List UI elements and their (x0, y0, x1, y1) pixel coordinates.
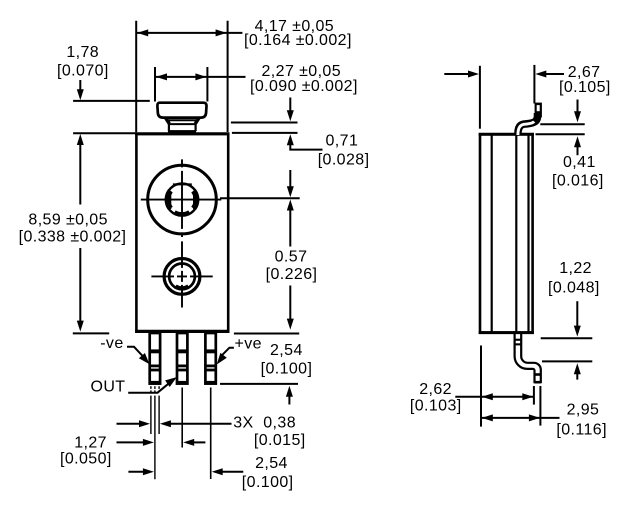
dim 0.57 down arrow (top) (289, 170, 291, 188)
large port vertical centerline (181, 159, 183, 237)
svg-text:[0.048]: [0.048] (548, 280, 600, 297)
dim 1,22 upper reference line (541, 337, 593, 339)
dim 8,59 dimension line lower segment (79, 248, 81, 326)
dim 2,95 dimension line with outward arrows (482, 417, 541, 419)
dim 2,67 right arrow (535, 71, 546, 78)
svg-text:[0.100]: [0.100] (242, 474, 294, 491)
small port inner circle (169, 264, 195, 290)
dim 0,41 lower reference line (536, 133, 585, 135)
dim 1,22 up arrow (574, 363, 581, 374)
dim 2,27 extension line left (154, 67, 156, 102)
svg-text:2,54: 2,54 (255, 455, 288, 472)
dim 0,71 down arrow (289, 98, 291, 113)
dim 3X 0,38 row: left arrow (117, 423, 142, 425)
sensor die right chord line (193, 191, 195, 209)
svg-text:-ve: -ve (100, 335, 123, 352)
dim 0,71 up arrow with elbow leader (287, 134, 294, 145)
body top extension line left (73, 132, 137, 134)
label +ve leader (221, 348, 234, 357)
svg-text:[0.028]: [0.028] (318, 151, 370, 168)
lead 1 center projection (dashed) (154, 386, 156, 479)
dim 1,78 down arrow (79, 80, 81, 93)
side view bottom lead (515, 334, 541, 383)
lead 1 left edge projection (dashed) (150, 386, 152, 434)
dim 2,62 leader from text (455, 396, 481, 398)
nozzle neck line (169, 123, 196, 125)
svg-text:1,78: 1,78 (66, 44, 99, 61)
lead right edge extension line (539, 386, 541, 426)
small port inner bottom thick arc (176, 286, 189, 288)
label -ve leader (127, 347, 145, 358)
dim 2,27 dimension line (155, 76, 246, 78)
dim 2,54 (bottom) right arrow (212, 468, 223, 475)
svg-text:[0.103]: [0.103] (410, 397, 462, 414)
sensor die left chord line (169, 191, 171, 209)
nozzle shoulder right slant (195, 118, 199, 124)
svg-text:[0.105]: [0.105] (559, 79, 611, 96)
svg-text:2,95: 2,95 (567, 402, 600, 419)
svg-text:+ve: +ve (235, 336, 262, 353)
svg-text:[0.090 ±0.002]: [0.090 ±0.002] (250, 78, 358, 95)
dim 2,27 right arrowhead (195, 73, 206, 80)
lead 3 center projection (dashed) (210, 388, 212, 480)
dim 0.57 dimension line lower segment (289, 286, 291, 321)
body top extension line right (232, 132, 298, 134)
nozzle neck right side (195, 121, 197, 131)
dim 4,17 right arrowhead (216, 29, 227, 36)
lead 1 right edge projection (dashed) (158, 386, 160, 434)
dim 8,59 up arrow (77, 134, 84, 145)
sensor die top chord line (173, 183, 192, 185)
dim 2,27 left arrowhead (156, 73, 167, 80)
dim 4,17 extension line right (227, 21, 229, 132)
dim 1,22 lower reference line (542, 360, 592, 362)
dim 1,27 right arrow (183, 439, 194, 446)
dim 8,59 dimension line upper segment (79, 140, 81, 205)
svg-text:[0.338 ±0.002]: [0.338 ±0.002] (19, 229, 127, 246)
dim 0,41 up arrow (574, 136, 581, 147)
small port outer circle (164, 259, 200, 295)
dim 2,67 left arrow (444, 73, 470, 75)
svg-text:OUT: OUT (91, 379, 126, 396)
nozzle neck left side (168, 121, 170, 131)
small port horizontal centerline (151, 275, 212, 277)
svg-text:1,27: 1,27 (74, 435, 107, 452)
lead tick band 1 (515, 339, 522, 341)
dim 0,41 upper reference line (540, 123, 584, 125)
lead 2 bands (177, 349, 187, 384)
svg-text:0.57: 0.57 (275, 248, 308, 265)
dim 0.57 dimension line upper segment (289, 209, 291, 247)
sensor die bottom thick arc (175, 212, 190, 214)
large port outer circle (148, 165, 217, 234)
lead 2 center projection (dashed) (181, 388, 183, 448)
dim 2,62 dimension line with outward arrows (482, 396, 534, 398)
nozzle top extension line (73, 100, 150, 102)
lead 2 (OUT) outline (177, 333, 187, 384)
large port horizontal centerline (141, 199, 222, 201)
lead upper leg outer edge (515, 334, 535, 383)
svg-text:3X 0,38: 3X 0,38 (233, 414, 296, 431)
svg-text:[0.050]: [0.050] (60, 450, 112, 467)
large port centerline extension right (220, 197, 300, 199)
side body internal line 1 (491, 135, 493, 332)
svg-text:[0.015]: [0.015] (254, 432, 306, 449)
lead down-leg tick band (535, 373, 541, 376)
dim 2,62 extension line left (480, 346, 482, 427)
dim 4,17 extension line left (135, 21, 137, 132)
body bottom extension line left (73, 332, 109, 334)
dim 3X 0,38 row: right arrow and leader to text (160, 420, 171, 427)
side view body (479, 134, 534, 332)
top tab head (535, 103, 542, 118)
svg-text:[0.100]: [0.100] (261, 360, 313, 377)
lead 1 bands (150, 349, 160, 384)
nozzle cap on top of body (157, 103, 206, 132)
small port vertical centerline (181, 241, 183, 307)
sensor die left thick arc (167, 191, 170, 209)
nozzle shoulder line (167, 119, 197, 121)
lead tip band (535, 381, 541, 384)
dim 2,54 (bottom) left arrow (128, 471, 145, 473)
dim 2,54 (right) up arrow (286, 386, 293, 397)
nozzle dark base band (168, 130, 196, 135)
svg-text:2,54: 2,54 (270, 342, 303, 359)
large port inner circle (sensor aperture) (166, 184, 198, 216)
lead 1 (-ve) outline (150, 333, 160, 384)
dim 8,59 down arrow (77, 321, 84, 332)
svg-text:2,62: 2,62 (419, 381, 452, 398)
body bottom extension line right (234, 333, 299, 335)
side body internal line 2 (515, 135, 517, 332)
lead tip extension line right (220, 383, 298, 385)
dim 0.57 down arrow (bottom) (287, 319, 294, 330)
dim 2,67 extension line left (479, 66, 481, 129)
top bent tab band white core (518, 122, 534, 135)
sensor die right thick arc (194, 191, 197, 209)
svg-text:[0.164 ±0.002]: [0.164 ±0.002] (244, 32, 352, 49)
dim 4,17 dimension line (136, 32, 242, 34)
dim 0,41 down arrow (577, 100, 579, 114)
svg-text:0,41: 0,41 (563, 154, 596, 171)
dim 2,67 extension line right (533, 65, 535, 104)
nozzle shoulder extension line right (231, 122, 298, 124)
dim 0.57 up arrow (287, 200, 294, 211)
lead left edge extension line (533, 386, 535, 405)
lead tick band 2 (515, 343, 522, 345)
dim 1,27 left arrow (117, 441, 146, 443)
svg-text:0,71: 0,71 (326, 133, 359, 150)
package body (front view) (135, 134, 229, 332)
svg-text:[0.070]: [0.070] (57, 63, 109, 80)
label OUT leader (128, 384, 168, 393)
top bent tab band (thick black) (518, 113, 538, 134)
svg-text:8,59 ±0,05: 8,59 ±0,05 (28, 211, 108, 228)
dim 2,27 extension line right (206, 67, 208, 102)
svg-text:[0.116]: [0.116] (556, 421, 607, 438)
lead 3 (+ve) outline (205, 333, 215, 384)
svg-text:1,22: 1,22 (559, 260, 592, 277)
nozzle shoulder left slant (166, 118, 170, 124)
top tab head white slot (537, 105, 540, 111)
dim 4,17 left arrowhead (137, 29, 148, 36)
lead 3 bands (205, 349, 215, 384)
svg-text:[0.016]: [0.016] (552, 172, 604, 189)
lead upper leg inner edge (521, 334, 541, 383)
dim 1,22 down arrow (576, 301, 578, 327)
side body internal line 3 (527, 135, 529, 332)
svg-text:[0.226]: [0.226] (266, 266, 318, 283)
